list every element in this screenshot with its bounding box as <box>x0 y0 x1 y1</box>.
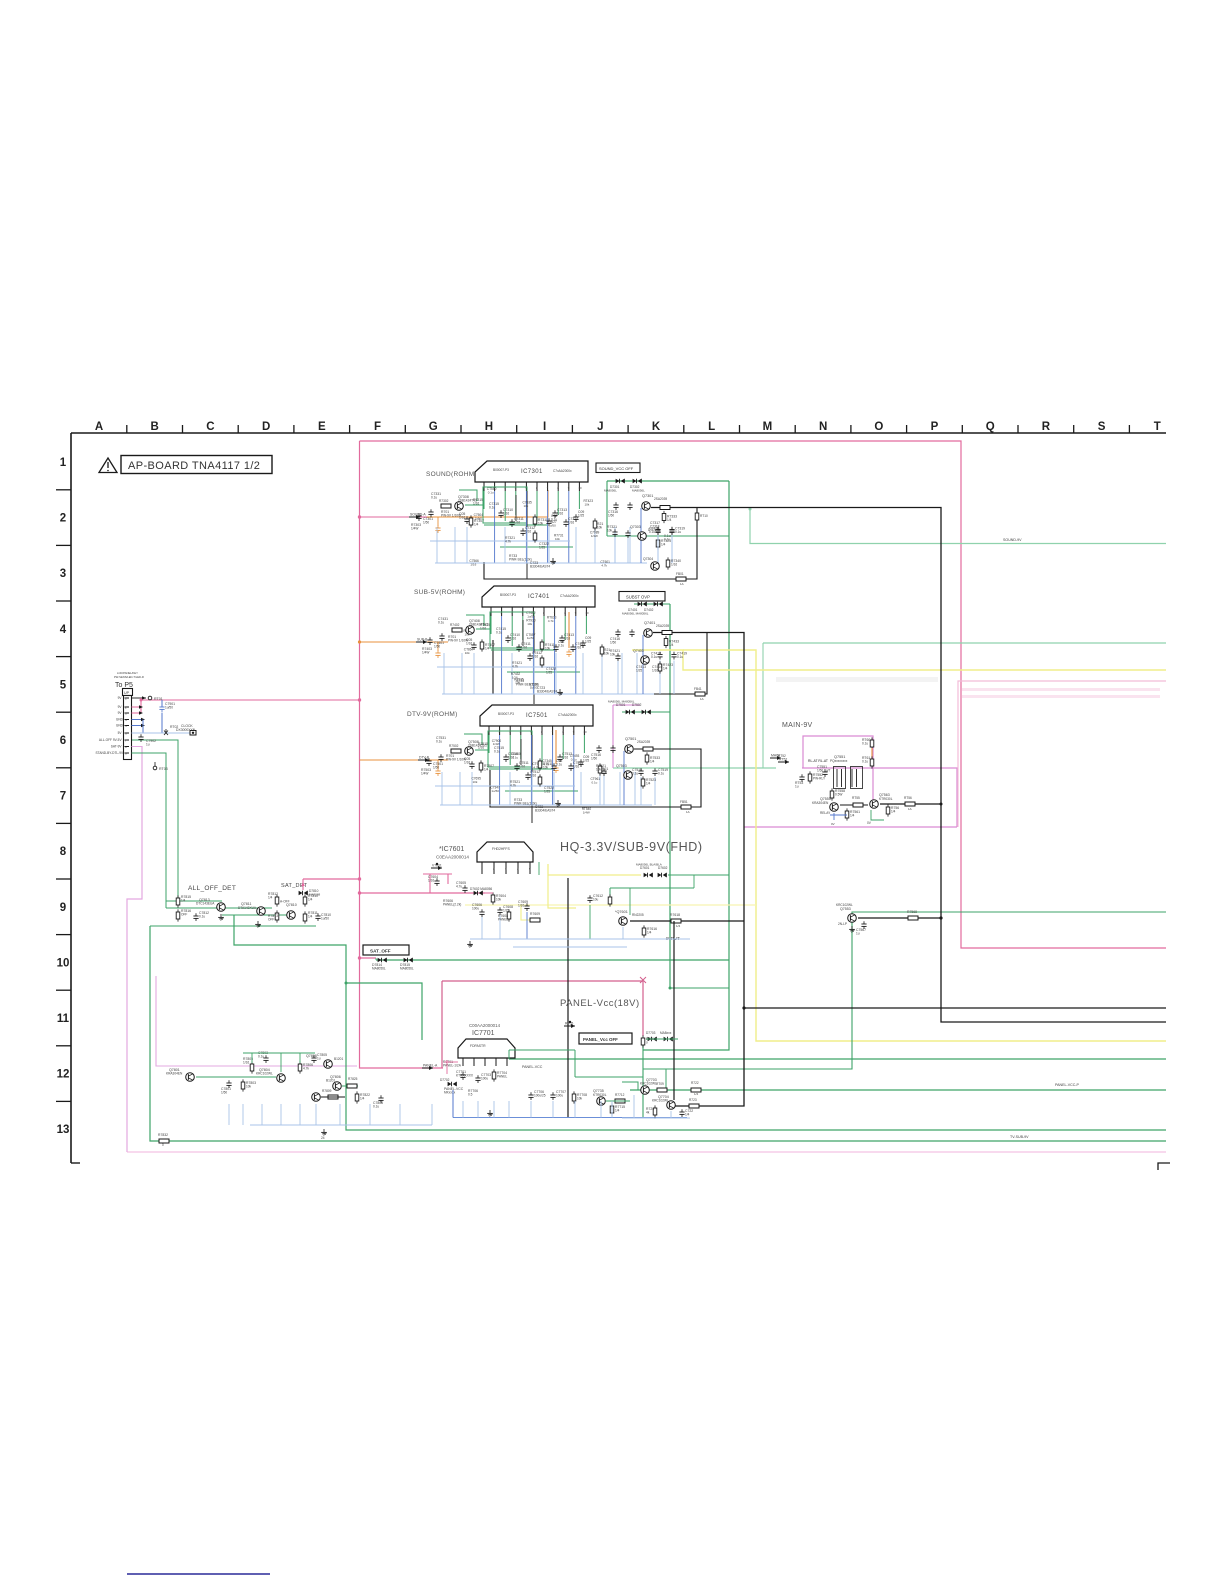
capacitor C757 <box>557 756 562 758</box>
wire pale blue drop <box>511 653 513 694</box>
wire crimson PANEL box right edge <box>642 981 644 1036</box>
svg-text:0.5: 0.5 <box>468 1093 473 1097</box>
wire black vertical x568 HQ to panel <box>567 878 569 1117</box>
pin 4 of IC7401 <box>522 607 524 616</box>
wire pink SAT arrow up <box>301 882 305 886</box>
svg-text:KTR030L: KTR030L <box>593 1093 607 1097</box>
svg-text:24: 24 <box>321 1136 325 1140</box>
resistor R7551 vertical main <box>808 774 812 781</box>
resistor R7815 vertical <box>176 898 180 905</box>
svg-text:ALL_OFF_DET: ALL_OFF_DET <box>188 885 236 892</box>
pin 7 of P5 <box>125 739 130 741</box>
svg-text:M: M <box>763 421 773 433</box>
wire green inner rail a <box>489 768 552 770</box>
wire black Q7563 output row <box>880 803 941 805</box>
wire blue pin 9 drop <box>573 735 575 805</box>
column tick S <box>1128 425 1130 433</box>
svg-text:1/16: 1/16 <box>510 637 516 641</box>
svg-text:SOUND-9V: SOUND-9V <box>1003 538 1022 542</box>
resistor R7722 on green <box>691 1088 701 1092</box>
wire pink pin3 arrow <box>132 712 142 714</box>
svg-text:SOUND(ROHM): SOUND(ROHM) <box>426 471 477 478</box>
row tick 9 <box>56 934 71 936</box>
svg-text:1/4: 1/4 <box>667 518 672 522</box>
svg-text:1/4W: 1/4W <box>583 811 590 815</box>
resistor R7302 base <box>441 504 451 508</box>
wire pale blue drop <box>555 653 557 694</box>
svg-text:9V: 9V <box>118 705 123 709</box>
wire green vertical stub x607 <box>606 481 608 536</box>
svg-text:R722: R722 <box>691 1081 699 1085</box>
wire green panel rail y1050 <box>509 1049 575 1051</box>
resistor R7604 vertical pink <box>491 895 495 902</box>
svg-text:10k: 10k <box>515 681 520 685</box>
resistor R7523 dtv right <box>641 779 645 786</box>
pin 1 of IC7601 <box>481 862 483 874</box>
wire pink panel inner vertical <box>446 1060 448 1074</box>
wire green inner rail b <box>500 546 573 548</box>
pin 1 of IC7301 <box>483 482 485 491</box>
svg-text:1/16: 1/16 <box>518 904 524 908</box>
wire green HQ branch x590 <box>589 905 591 939</box>
resistor R7608 vertical <box>507 912 511 919</box>
wire blue pin 2 drop <box>501 616 503 694</box>
svg-text:10k: 10k <box>584 502 589 506</box>
wire green pin 6 drop <box>543 616 545 646</box>
svg-text:RT09: RT09 <box>656 1082 664 1086</box>
svg-text:8: 8 <box>564 611 566 615</box>
svg-text:MA8056L MA8056L: MA8056L MA8056L <box>622 612 649 616</box>
svg-text:1u/50: 1u/50 <box>491 789 499 793</box>
test point RT04 above sound row <box>145 702 147 704</box>
pin 1 of IC7501 <box>488 726 490 735</box>
svg-text:1A: 1A <box>680 582 684 586</box>
wire pale blue drop <box>459 772 461 805</box>
resistor R7704 vertical panel <box>492 1072 496 1079</box>
border frame left ruler line <box>70 433 72 1163</box>
svg-text:N: N <box>819 421 827 433</box>
wire black DTV feedback loop <box>490 749 701 807</box>
svg-text:5V: 5V <box>118 731 123 735</box>
row tick 11 <box>56 1045 71 1047</box>
svg-text:OFF: OFF <box>181 913 187 917</box>
svg-text:RT01: RT01 <box>154 697 163 701</box>
ground below Q7811 <box>257 921 259 924</box>
transistor Q7703 <box>641 1086 650 1095</box>
capacitor C7702 panel <box>460 1074 465 1076</box>
row tick 5 <box>56 711 71 713</box>
resistor R7507 below <box>479 763 483 770</box>
IC IC7301 body <box>475 461 588 482</box>
capacitor C7901 on blue <box>159 706 164 708</box>
svg-text:4.7u: 4.7u <box>456 885 462 889</box>
svg-text:5: 5 <box>60 679 67 691</box>
wire pale blue drop <box>594 527 596 563</box>
wire pale blue drop <box>548 527 550 563</box>
capacitor C7318 sound mid <box>655 529 660 531</box>
svg-text:PWR-SEL(1.2k): PWR-SEL(1.2k) <box>514 802 537 806</box>
net arrow MAIN supply into relay <box>778 761 789 763</box>
wire green pin 8 drop <box>564 616 566 640</box>
svg-text:1/16: 1/16 <box>562 756 568 760</box>
svg-text:10k: 10k <box>577 1097 583 1101</box>
IC IC7401 body <box>482 586 595 607</box>
svg-text:1/4W: 1/4W <box>421 772 428 776</box>
wire green left elbow Q7703 <box>622 1082 638 1090</box>
capacitor C7609 <box>524 905 529 907</box>
wire magenta MAIN-9V box top <box>803 736 873 804</box>
svg-text:LCD/PANEL/KEY: LCD/PANEL/KEY <box>117 671 138 675</box>
svg-text:1/50: 1/50 <box>423 521 429 525</box>
wire green Q7508 collector <box>475 749 489 751</box>
column tick D <box>293 425 295 433</box>
wire green vertical x610 with resistor <box>609 888 611 896</box>
wire green SUB OVP row <box>634 603 670 605</box>
capacitor C7605 pink branch <box>462 887 467 889</box>
svg-text:1/16: 1/16 <box>470 562 476 566</box>
svg-text:A: A <box>95 421 103 433</box>
svg-text:12: 12 <box>57 1069 70 1081</box>
svg-text:0.1u: 0.1u <box>488 490 494 494</box>
svg-text:*IC7601: *IC7601 <box>439 846 464 853</box>
svg-text:1/25: 1/25 <box>539 546 545 550</box>
capacitor C746 <box>527 655 532 657</box>
wire pale blue drop <box>509 772 511 805</box>
svg-text:IC7501: IC7501 <box>526 713 548 719</box>
wire crimson PANEL box left edge <box>441 981 443 1068</box>
svg-text:R7402: R7402 <box>450 623 460 627</box>
svg-text:B3304/EAST4: B3304/EAST4 <box>537 690 557 694</box>
resistor R7340 <box>666 560 670 567</box>
wire green elbow upper <box>464 734 482 745</box>
capacitor C7551b main <box>822 771 827 773</box>
svg-text:B00007-P3: B00007-P3 <box>498 712 514 716</box>
pin 9 of P5 <box>125 752 130 754</box>
svg-text:0.1u: 0.1u <box>494 750 500 754</box>
svg-text:4.7k: 4.7k <box>548 619 554 623</box>
svg-text:0.1u: 0.1u <box>199 915 205 919</box>
column tick L <box>739 425 741 433</box>
resistor R7816 vertical <box>176 912 180 919</box>
svg-text:1/50: 1/50 <box>591 757 597 761</box>
wire orange SOUND row <box>427 490 548 517</box>
svg-text:1/25: 1/25 <box>583 759 589 763</box>
capacitor C756 <box>525 774 530 776</box>
svg-text:2N-LP: 2N-LP <box>838 922 847 926</box>
svg-text:MKxxxx: MKxxxx <box>444 1091 456 1095</box>
pin 2 of IC7701 <box>473 1058 475 1066</box>
svg-text:1/16: 1/16 <box>525 530 531 534</box>
svg-text:1/4: 1/4 <box>474 523 479 527</box>
svg-text:9V: 9V <box>118 711 123 715</box>
capacitor C7567 below main out <box>861 923 866 925</box>
svg-text:1/16: 1/16 <box>478 746 484 750</box>
box SOUND_VCC OFF label <box>596 463 640 473</box>
capacitor C7321 ovp <box>612 531 617 533</box>
svg-text:1u/50: 1u/50 <box>527 636 535 640</box>
capacitor C755 <box>514 765 519 767</box>
resistor R7407 below <box>480 642 484 649</box>
underline dark blue bottom of page <box>127 1573 270 1575</box>
wire green pin 3 drop <box>504 491 506 521</box>
svg-text:D7602 MA8056: D7602 MA8056 <box>470 887 492 891</box>
net arrow PANEL input <box>422 1067 433 1069</box>
pin 4 of IC7501 <box>520 726 522 735</box>
svg-text:1/4: 1/4 <box>694 1092 699 1096</box>
svg-text:A-OFF: A-OFF <box>280 900 290 904</box>
resistor RT56 on output <box>905 802 915 806</box>
wire pale blue drop <box>575 527 577 563</box>
pin 2 of IC7501 <box>499 726 501 735</box>
wire green elbow upper <box>459 490 477 501</box>
capacitor extra a <box>464 518 469 520</box>
wire blue drops right cluster <box>633 1095 635 1118</box>
svg-text:E: E <box>318 421 326 433</box>
capacitor C7521 ovp dtv <box>601 770 606 772</box>
svg-text:IC7401: IC7401 <box>528 594 550 600</box>
transistor Q7303 ovp <box>638 532 647 541</box>
wire pale yellow HQ row <box>465 904 756 906</box>
bus pale blue panel bottom <box>453 1117 687 1119</box>
transistor Q7807 mid <box>312 1093 321 1102</box>
ground panel <box>489 1110 491 1113</box>
svg-text:1/16: 1/16 <box>519 765 525 769</box>
svg-text:0.1u: 0.1u <box>651 655 657 659</box>
wire green top rail to column L <box>607 480 729 482</box>
svg-text:Q7304: Q7304 <box>643 557 653 561</box>
wire pink main rail top/right edge <box>360 441 1167 948</box>
wire green pin 10 drop <box>583 735 585 753</box>
capacitor extra a <box>471 644 476 646</box>
svg-text:1: 1 <box>60 457 67 469</box>
svg-text:4.7k: 4.7k <box>303 1067 309 1071</box>
wire blue pin 5 drop <box>525 491 527 563</box>
wire green DTV OVP row <box>622 711 670 713</box>
svg-text:1A: 1A <box>908 807 912 811</box>
svg-text:1/16: 1/16 <box>521 646 527 650</box>
row tick 7 <box>56 822 71 824</box>
svg-text:8: 8 <box>60 846 67 858</box>
svg-text:10k: 10k <box>496 898 502 902</box>
connector stub CLOCK <box>190 731 196 736</box>
row tick 12 <box>56 1100 71 1102</box>
svg-text:9: 9 <box>60 902 66 914</box>
resistor R7810 vertical <box>303 897 307 904</box>
svg-text:D7702: D7702 <box>440 1078 450 1082</box>
wire pink inner stub <box>485 892 493 894</box>
wire pale blue drop <box>601 653 603 694</box>
svg-text:R7825: R7825 <box>348 1077 358 1081</box>
svg-text:R7502: R7502 <box>449 744 459 748</box>
capacitor C7722 below <box>679 1111 684 1113</box>
wire orange SOUND stub down <box>437 517 439 526</box>
wire blue pin 7 drop <box>552 735 554 805</box>
box SAT_OFF label <box>363 945 409 955</box>
svg-text:I: I <box>543 421 546 433</box>
capacitor C735 <box>509 521 514 523</box>
svg-text:10k: 10k <box>545 647 551 651</box>
capacitor C7419 <box>671 654 676 656</box>
svg-text:RT56: RT56 <box>904 796 912 800</box>
resistor R7721 after Q7703 <box>657 1088 667 1092</box>
transistor Q7308 <box>455 502 464 511</box>
column tick C <box>237 425 239 433</box>
svg-text:1/16: 1/16 <box>508 756 514 760</box>
svg-text:B00007-P3: B00007-P3 <box>493 468 509 472</box>
svg-text:0V: 0V <box>831 822 835 826</box>
capacitor C7612 <box>587 897 592 899</box>
svg-text:C7xAA2000x: C7xAA2000x <box>560 594 579 598</box>
resistor R7312 vertical <box>533 533 537 540</box>
svg-text:R723: R723 <box>689 1098 697 1102</box>
pin 4 of IC7701 <box>495 1058 497 1066</box>
svg-text:0.1u: 0.1u <box>862 742 868 746</box>
wire pale blue drop <box>621 653 623 694</box>
wire green inner rail b <box>507 671 580 673</box>
column tick M <box>794 425 796 433</box>
wire black mid vertical 2 <box>520 739 522 765</box>
svg-text:1/50: 1/50 <box>608 514 614 518</box>
svg-text:MA8056L BLA/BLA: MA8056L BLA/BLA <box>636 863 662 867</box>
svg-text:R: R <box>1042 421 1051 433</box>
resistor R7533 below output <box>645 755 649 762</box>
title box AP-BOARD TNA4117 1/2 <box>121 456 272 474</box>
capacitor C7608 <box>497 909 502 911</box>
row tick 6 <box>56 767 71 769</box>
svg-text:B3304/EAST4: B3304/EAST4 <box>535 809 555 813</box>
svg-text:1/25: 1/25 <box>636 669 642 673</box>
wire orange DTV stub down <box>437 760 439 769</box>
wire orange SUB supply row <box>360 641 449 643</box>
wire black Q7807 out <box>321 1096 345 1098</box>
wire green inner box <box>488 731 532 767</box>
wire pale blue drop <box>526 527 528 563</box>
svg-text:DTC143EUA: DTC143EUA <box>196 902 215 906</box>
pin 2 of IC7401 <box>501 607 503 616</box>
column tick K <box>683 425 685 433</box>
svg-text:100u: 100u <box>472 907 479 911</box>
bus pale blue right cluster <box>622 1117 690 1119</box>
resistor R7402 base <box>452 628 462 632</box>
svg-text:FDPASTR: FDPASTR <box>470 1044 486 1048</box>
capacitor C7319 <box>669 529 674 531</box>
wire pale blue drop <box>531 772 533 805</box>
svg-text:1/4: 1/4 <box>850 814 855 818</box>
capacitor orange C7303 <box>435 527 440 529</box>
svg-text:2: 2 <box>493 867 495 871</box>
svg-text:RT03: RT03 <box>159 767 168 771</box>
capacitor C7607 <box>479 911 484 913</box>
capacitor C7703 panel <box>475 1077 480 1079</box>
pin 3 of IC7301 <box>504 482 506 491</box>
pin 10 of IC7401 <box>585 607 587 616</box>
capacitor C7801 <box>226 1082 231 1084</box>
capacitor C7707 panel mid <box>550 1094 555 1096</box>
svg-text:MAIN: MAIN <box>771 754 780 758</box>
svg-text:R7609: R7609 <box>530 912 540 916</box>
capacitor C738 <box>563 521 568 523</box>
resistor R7333 below output <box>662 514 666 521</box>
svg-text:B00007-P3: B00007-P3 <box>500 593 516 597</box>
transistor Q7401 output <box>644 629 653 638</box>
transistor Q7811 <box>257 907 266 916</box>
faint ghost text band main area <box>776 677 938 682</box>
svg-text:1/16: 1/16 <box>503 512 509 516</box>
wire yellow zig to resistor <box>521 905 530 920</box>
svg-text:1: 1 <box>481 867 483 871</box>
svg-text:KTR030L: KTR030L <box>879 797 893 801</box>
transistor Q7801 <box>186 1073 195 1082</box>
wire pale blue drop <box>582 653 584 694</box>
border frame bottom-left foot tick <box>71 1162 80 1164</box>
svg-text:0.1u: 0.1u <box>431 496 437 500</box>
capacitor C7302 <box>416 515 421 517</box>
resistor R7307 below <box>469 518 473 525</box>
wire blue dtv ovp drop <box>603 776 605 805</box>
capacitor C736 <box>520 530 525 532</box>
capacitor C7808 <box>378 1097 383 1099</box>
svg-text:PANEL-A: PANEL-A <box>423 1064 438 1068</box>
wire green ALL_OFF row b <box>166 907 272 909</box>
column tick J <box>627 425 629 433</box>
wire green vertical column L <box>643 481 729 1050</box>
capacitor C7810 <box>315 915 320 917</box>
wire blue pin5 arrow <box>132 725 144 727</box>
svg-text:SUB-5V(ROHM): SUB-5V(ROHM) <box>414 589 465 596</box>
wire pale blue drop <box>533 653 535 694</box>
svg-text:1/16: 1/16 <box>671 563 677 567</box>
pin 2 of IC7301 <box>494 482 496 491</box>
svg-text:5: 5 <box>529 867 531 871</box>
svg-text:0.1u: 0.1u <box>677 655 683 659</box>
wire green pin 4 drop <box>522 616 524 640</box>
wire blue pin 7 drop <box>554 616 556 694</box>
svg-text:10u: 10u <box>593 898 599 902</box>
wire orange DTV supply row <box>360 759 449 761</box>
svg-text:10k: 10k <box>597 526 603 530</box>
wire pink SOUND supply row <box>360 516 428 518</box>
wire green PANEL mid y1069 up to y912 exit <box>643 912 1166 1069</box>
ground symbol block <box>552 558 554 561</box>
pin 7 of IC7501 <box>552 726 554 735</box>
wire blue panel drops <box>462 1101 464 1118</box>
wire orange main pin <box>871 748 873 759</box>
svg-text:1/16: 1/16 <box>575 646 581 650</box>
wire blue ovp drop <box>614 537 616 563</box>
svg-text:1/16: 1/16 <box>243 1061 249 1065</box>
IC7701 body <box>458 1039 515 1058</box>
resistor R7411 vertical <box>540 642 544 649</box>
resistor R7612 vertical <box>608 897 612 904</box>
svg-text:R7809: R7809 <box>322 1089 332 1093</box>
wire blue Q7501 base drop <box>623 751 625 805</box>
wire green pin 4 drop <box>515 491 517 515</box>
svg-text:K: K <box>652 421 661 433</box>
wire violet from P5 pin 8 down-left <box>127 746 142 1152</box>
wire pale blue drop <box>619 772 621 805</box>
svg-text:6: 6 <box>536 486 538 490</box>
svg-text:F: F <box>374 421 381 433</box>
svg-text:Q7303: Q7303 <box>630 525 641 529</box>
wire yellow HQ pin branch <box>548 864 641 875</box>
pin 9 of IC7401 <box>575 607 577 616</box>
column tick A <box>126 425 128 433</box>
svg-text:9: 9 <box>568 486 570 490</box>
svg-text:DX3000XXN: DX3000XXN <box>176 728 196 732</box>
svg-text:MA8056L MA8056L: MA8056L MA8056L <box>608 700 635 704</box>
wire black Q7301 to output <box>651 507 673 509</box>
svg-text:C: C <box>206 421 214 433</box>
